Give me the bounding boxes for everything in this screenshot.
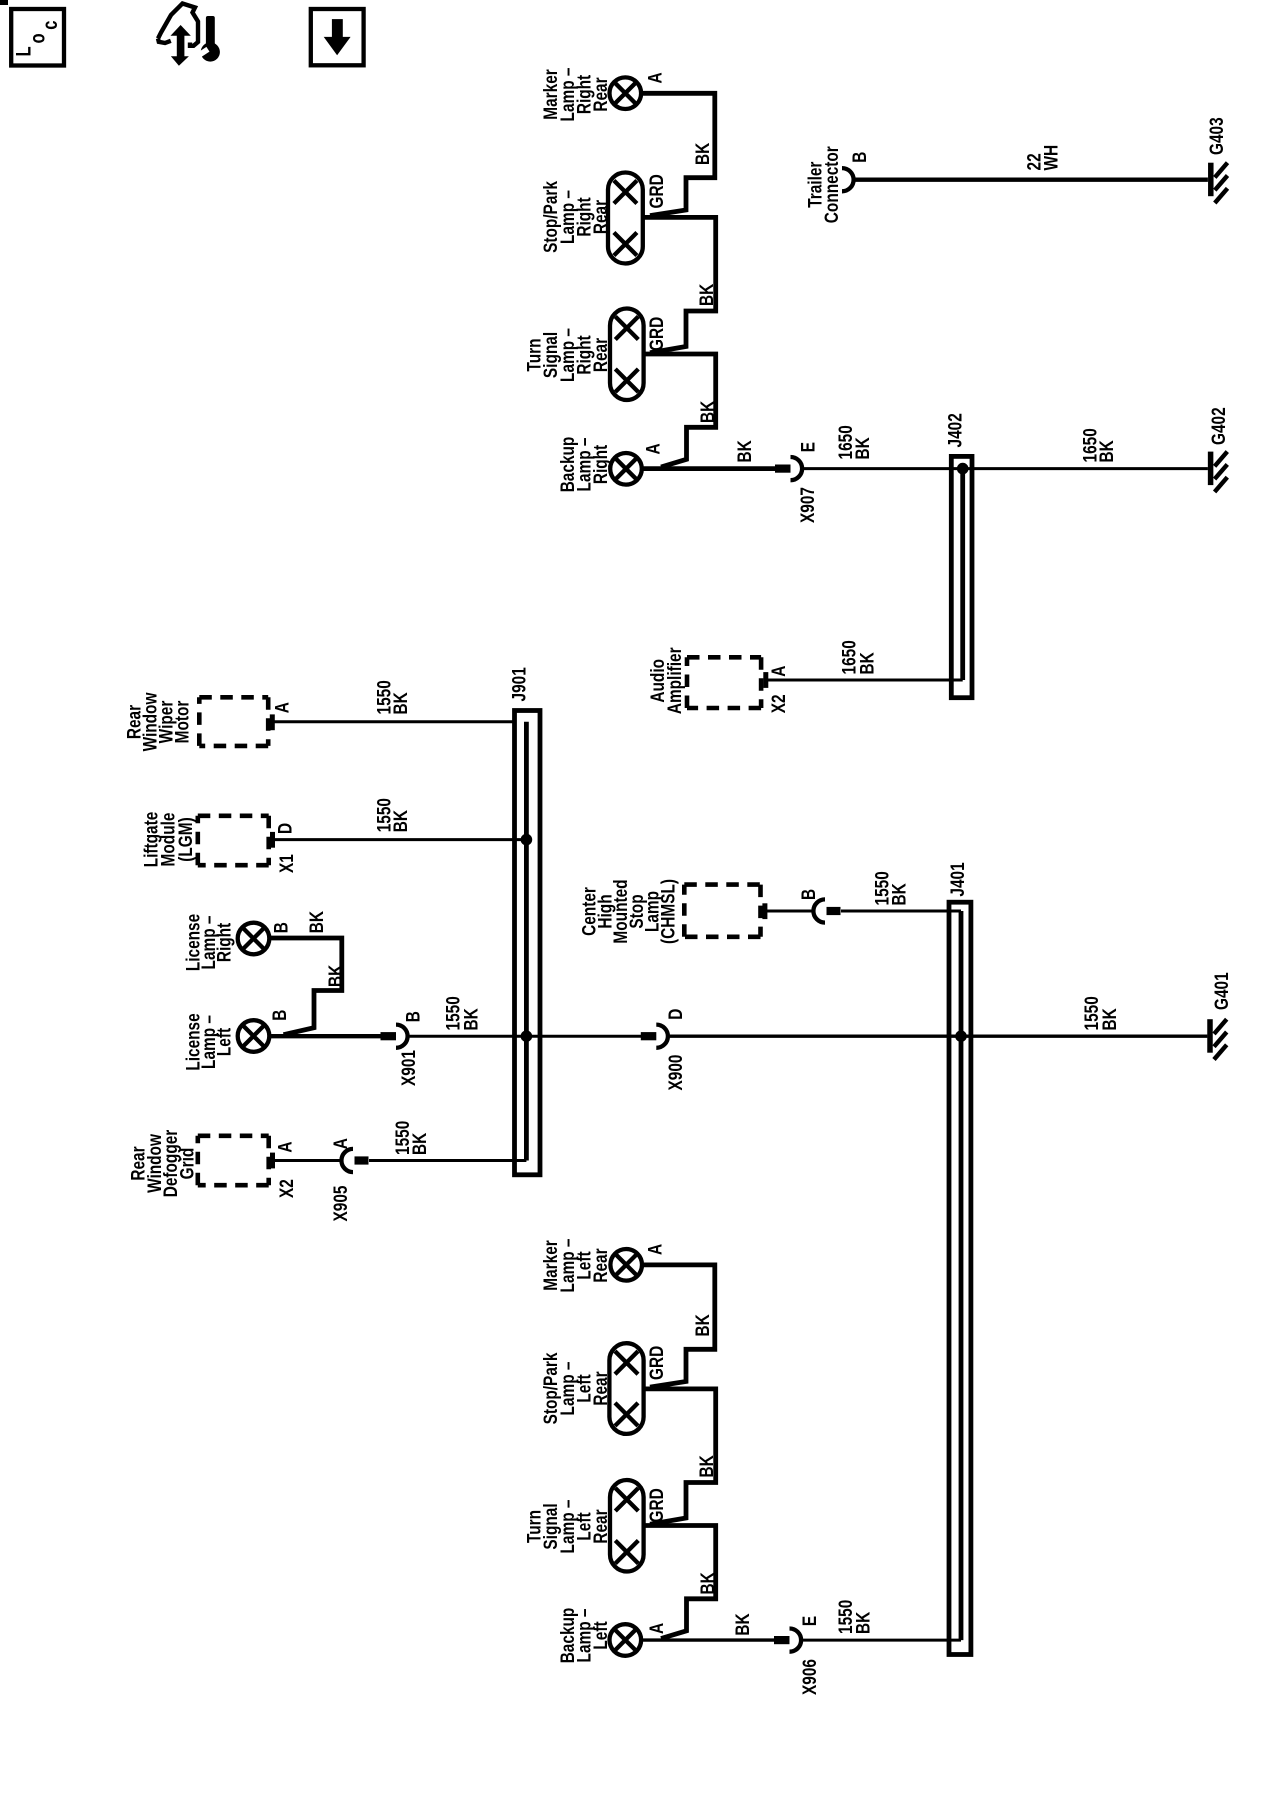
junction J402 splice: [957, 463, 969, 475]
svg-text:WH: WH: [1040, 145, 1062, 171]
label: pin A backup left: [645, 1623, 667, 1634]
label: pin GRD turn left: [645, 1488, 667, 1522]
label: License Lamp - Right: [182, 914, 235, 972]
pin stub audio amp pin: [763, 672, 768, 688]
svg-text:J401: J401: [946, 862, 968, 896]
wire 1550 BK wiper to J901: [275, 720, 515, 723]
label: BK wire label 1: [691, 142, 713, 165]
splice pack J401: [949, 902, 971, 1654]
svg-text:B: B: [402, 1011, 424, 1022]
svg-text:(LGM): (LGM): [174, 817, 196, 861]
label: Trailer Connector: [804, 146, 843, 223]
svg-text:J901: J901: [508, 667, 530, 701]
svg-text:G401: G401: [1210, 972, 1232, 1010]
pin stub LGM pin: [270, 832, 275, 848]
label: BK wire label L4: [731, 1613, 753, 1636]
svg-text:X2: X2: [767, 694, 789, 713]
lamp Turn Signal Lamp Left Rear (dual filament): [610, 1480, 644, 1572]
component box: Rear Window Defogger Grid (dashed): [198, 1136, 269, 1185]
wire GRD chain turn right: [642, 354, 716, 467]
svg-text:(CHMSL): (CHMSL): [657, 879, 679, 944]
label: Marker Lamp - Right Rear: [539, 67, 611, 121]
wire 22 WH trailer to G403: [854, 177, 1208, 181]
label: J401: [946, 862, 968, 896]
svg-text:X1: X1: [275, 854, 297, 873]
label: pin B CHMSL: [797, 889, 819, 900]
label: Stop/Park Lamp - Right Rear: [539, 181, 611, 253]
label: 1550 BK label wiper: [373, 680, 412, 714]
svg-text:A: A: [767, 665, 789, 676]
svg-text:Grid: Grid: [176, 1148, 198, 1180]
svg-text:B: B: [268, 1010, 290, 1021]
label: pin A defogger: [274, 1141, 296, 1152]
label: Stop/Park Lamp - Left Rear: [539, 1352, 611, 1424]
lamp Backup Lamp Right: [610, 453, 642, 485]
label: 1650 BK label b: [1079, 428, 1118, 462]
svg-text:A: A: [645, 1623, 667, 1634]
component box: Audio Amplifier (dashed): [687, 657, 761, 708]
svg-text:X2: X2: [275, 1179, 297, 1198]
lamp Turn Signal Lamp Right Rear (dual filament): [610, 309, 644, 401]
svg-text:BK: BK: [851, 437, 873, 460]
svg-text:E: E: [798, 1616, 820, 1627]
label: X1 LGM: [275, 854, 297, 873]
svg-text:BK: BK: [695, 1455, 717, 1478]
label: Rear Window Wiper Motor: [123, 692, 193, 751]
page corner mark: [0, 0, 8, 5]
svg-text:B: B: [797, 889, 819, 900]
label: G403: [1205, 117, 1227, 155]
wire 1550 BK X900 to G401: [668, 1034, 1208, 1037]
svg-text:BK: BK: [408, 1132, 430, 1155]
svg-text:BK: BK: [695, 283, 717, 306]
wire 1550 BK X901 to X900: [408, 1035, 642, 1038]
label: Backup Lamp - Right: [556, 437, 611, 493]
junction J901 splice 2: [521, 1030, 533, 1042]
label: 1550 BK label LGM: [373, 798, 412, 832]
svg-text:Amplifier: Amplifier: [663, 647, 685, 714]
svg-text:A: A: [644, 72, 666, 83]
wire BK license right to license left: [269, 938, 342, 1035]
wire BK marker-right to chain: [641, 93, 715, 215]
svg-text:X901: X901: [397, 1050, 419, 1086]
label: pin A marker left: [644, 1244, 666, 1255]
label: Rear Window Defogger Grid: [127, 1130, 198, 1198]
svg-text:Rear: Rear: [589, 1248, 611, 1282]
svg-text:GRD: GRD: [645, 317, 667, 351]
svg-text:X900: X900: [664, 1054, 686, 1090]
lamp Stop/Park Lamp Left Rear (dual filament): [609, 1343, 643, 1434]
component box: Rear Window Wiper Motor (dashed): [199, 697, 268, 746]
label: G401: [1210, 972, 1232, 1010]
svg-text:X906: X906: [798, 1659, 820, 1695]
label: BK wire label 4: [733, 440, 755, 463]
label: pin GRD stop/park right: [645, 174, 667, 208]
svg-text:B: B: [848, 152, 870, 163]
pin stub CHMSL pin: [762, 903, 767, 919]
icon: down arrow box: [311, 9, 364, 65]
label: 22 WH label: [1023, 145, 1062, 171]
svg-text:GRD: GRD: [645, 1346, 667, 1380]
lamp License Lamp Right: [238, 923, 270, 955]
label: BK wire label L1: [691, 1314, 713, 1337]
connector: Trailer Connector: [842, 168, 854, 191]
label: G402: [1207, 407, 1229, 445]
label: 1650 BK label a: [834, 425, 873, 459]
splice pack J901: [515, 711, 541, 1175]
label: Turn Signal Lamp - Left Rear: [523, 1499, 612, 1553]
label: 1550 BK label X901: [442, 996, 482, 1030]
label: Center High Mounted Stop Lamp (CHMSL): [578, 879, 679, 944]
label: pin A wiper: [271, 702, 293, 713]
svg-text:BK: BK: [691, 142, 713, 165]
wire BK license left to X901: [269, 1034, 381, 1038]
svg-text:A: A: [274, 1141, 296, 1152]
label: BK wire label L3: [696, 1572, 718, 1595]
label: X900: [664, 1054, 686, 1090]
wire GRD chain stop/park right: [642, 217, 716, 352]
label: pin E X907: [797, 442, 819, 453]
label: 1650 BK label c: [838, 640, 878, 674]
connector X907: [775, 457, 802, 480]
label: pin B license right: [270, 922, 292, 933]
svg-text:BK: BK: [1095, 440, 1117, 463]
label: pin GRD stop/park left: [645, 1346, 667, 1380]
splice pack J402: [951, 456, 972, 697]
svg-text:X905: X905: [329, 1185, 351, 1221]
junction J401 splice: [955, 1030, 967, 1042]
wire GRD chain turn left: [643, 1526, 716, 1639]
svg-text:B: B: [270, 922, 292, 933]
wire 1550 BK X905 to J901: [369, 1159, 526, 1162]
component box: CHMSL (dashed): [684, 885, 760, 937]
label: pin D LGM: [274, 823, 296, 834]
pin stub defogger pin: [270, 1153, 275, 1169]
connector X900: [641, 1025, 668, 1048]
wire BK defogger to X905: [275, 1159, 342, 1162]
wire BK marker-left to chain: [642, 1265, 715, 1387]
svg-text:GRD: GRD: [645, 1488, 667, 1522]
label: pin A backup right: [642, 443, 664, 454]
label: X2 audio amp: [767, 694, 789, 713]
connector X905: [341, 1149, 368, 1172]
label: pin B X901: [402, 1011, 424, 1022]
ground G402: [1211, 452, 1228, 492]
svg-text:BK: BK: [888, 883, 910, 906]
label: X907: [796, 487, 818, 523]
svg-text:BK: BK: [731, 1613, 753, 1636]
component box: Liftgate Module (dashed): [198, 816, 269, 865]
label: X905: [329, 1185, 351, 1221]
label: pin A marker right: [644, 72, 666, 83]
svg-text:J402: J402: [944, 413, 966, 447]
label: Turn Signal Lamp - Right Rear: [523, 328, 612, 382]
svg-text:G402: G402: [1207, 407, 1229, 445]
svg-text:A: A: [329, 1138, 351, 1149]
label: 1550 BK label X906: [834, 1600, 874, 1634]
wire 1550 BK CHMSL conn to J401: [841, 910, 961, 913]
svg-text:GRD: GRD: [645, 174, 667, 208]
label: J901: [508, 667, 530, 701]
lamp Marker Lamp Right Rear: [610, 77, 642, 109]
label: X906: [798, 1659, 820, 1695]
wire 1550 BK X906 to J401: [801, 1639, 961, 1642]
svg-text:D: D: [664, 1009, 686, 1020]
junction J901 splice 1: [521, 834, 533, 846]
svg-text:BK: BK: [1098, 1008, 1120, 1031]
lamp Marker Lamp Left Rear: [610, 1249, 642, 1281]
svg-text:X907: X907: [796, 487, 818, 523]
wire 1650 BK audio amp to J402: [768, 679, 963, 682]
label: pin A audio amp: [767, 665, 789, 676]
label: BK wire label L2: [695, 1455, 717, 1478]
label: Marker Lamp - Left Rear: [539, 1238, 611, 1292]
label: BK license label 1: [305, 911, 327, 934]
label: Liftgate Module (LGM): [140, 812, 197, 868]
svg-text:c: c: [39, 21, 62, 30]
lamp License Lamp Left: [238, 1020, 270, 1052]
label: 1550 BK label X900: [1080, 996, 1120, 1030]
pin stub wiper pin: [270, 714, 275, 730]
label: License Lamp - Left: [182, 1013, 235, 1071]
svg-text:Left: Left: [213, 1028, 235, 1056]
lamp Stop/Park Lamp Right Rear (dual filament): [608, 173, 643, 264]
label: pin D X900: [664, 1009, 686, 1020]
label: pin A X905: [329, 1138, 351, 1149]
label: Audio Amplifier: [646, 647, 685, 714]
ground G401: [1210, 1019, 1227, 1059]
svg-text:Right: Right: [213, 923, 235, 962]
svg-text:o: o: [27, 33, 50, 43]
wire GRD chain stop/park left: [643, 1389, 716, 1524]
svg-text:E: E: [797, 442, 819, 453]
wire 1550 BK LGM to J901: [275, 838, 527, 841]
svg-text:BK: BK: [696, 1572, 718, 1595]
svg-text:BK: BK: [305, 911, 327, 934]
svg-text:Motor: Motor: [171, 700, 193, 743]
svg-text:BK: BK: [691, 1314, 713, 1337]
wire BK backup left to X906: [642, 1638, 775, 1641]
svg-text:BK: BK: [324, 964, 346, 987]
label: 1550 BK label CHMSL: [871, 871, 910, 905]
svg-text:BK: BK: [460, 1008, 482, 1031]
connector X901: [381, 1025, 408, 1048]
wire BK backup right to X907: [643, 466, 776, 471]
svg-text:Right: Right: [589, 445, 611, 484]
svg-text:G403: G403: [1205, 117, 1227, 155]
label: pin E X906: [798, 1616, 820, 1627]
wire 1550 BK CHMSL to J401: [767, 910, 814, 913]
svg-text:BK: BK: [389, 810, 411, 833]
svg-text:A: A: [644, 1244, 666, 1255]
label: J402: [944, 413, 966, 447]
label: X901: [397, 1050, 419, 1086]
svg-text:BK: BK: [733, 440, 755, 463]
svg-text:BK: BK: [696, 400, 718, 423]
label: X2 defogger: [275, 1179, 297, 1198]
label: BK license label 2: [324, 964, 346, 987]
ground G403: [1211, 163, 1228, 203]
icon: vehicle with up/down arrow and wrench: [158, 4, 220, 66]
svg-text:L: L: [13, 46, 36, 56]
svg-text:A: A: [642, 443, 664, 454]
svg-text:BK: BK: [852, 1611, 874, 1634]
wire 1650 BK X907 to J402: [802, 467, 1208, 470]
label: pin B trailer: [848, 152, 870, 163]
label: BK wire label 3: [696, 400, 718, 423]
svg-text:D: D: [274, 823, 296, 834]
label: Backup Lamp - Left: [556, 1608, 611, 1664]
svg-text:BK: BK: [856, 652, 878, 675]
label: 1550 BK label X905: [391, 1121, 430, 1155]
svg-text:A: A: [271, 702, 293, 713]
connector X906: [774, 1629, 801, 1652]
label: pin B license left: [268, 1010, 290, 1021]
label: pin GRD turn right: [645, 317, 667, 351]
svg-text:BK: BK: [389, 692, 411, 715]
lamp Backup Lamp Left: [610, 1624, 642, 1656]
label: BK wire label 2: [695, 283, 717, 306]
icon: LOC box: [11, 9, 64, 66]
svg-text:Connector: Connector: [820, 146, 842, 223]
connector CHMSL connector: [813, 899, 840, 922]
